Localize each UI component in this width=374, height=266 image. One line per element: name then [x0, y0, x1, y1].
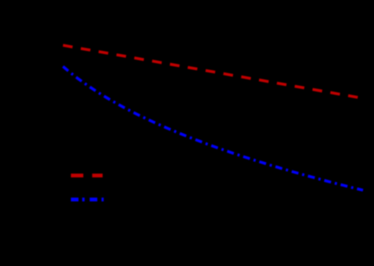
- legend blue dash-dot sample: [71, 198, 104, 202]
- legend red dashed sample: [71, 174, 103, 178]
- blue dash-dot series curve: [63, 66, 363, 190]
- red dashed series line: [63, 45, 363, 98]
